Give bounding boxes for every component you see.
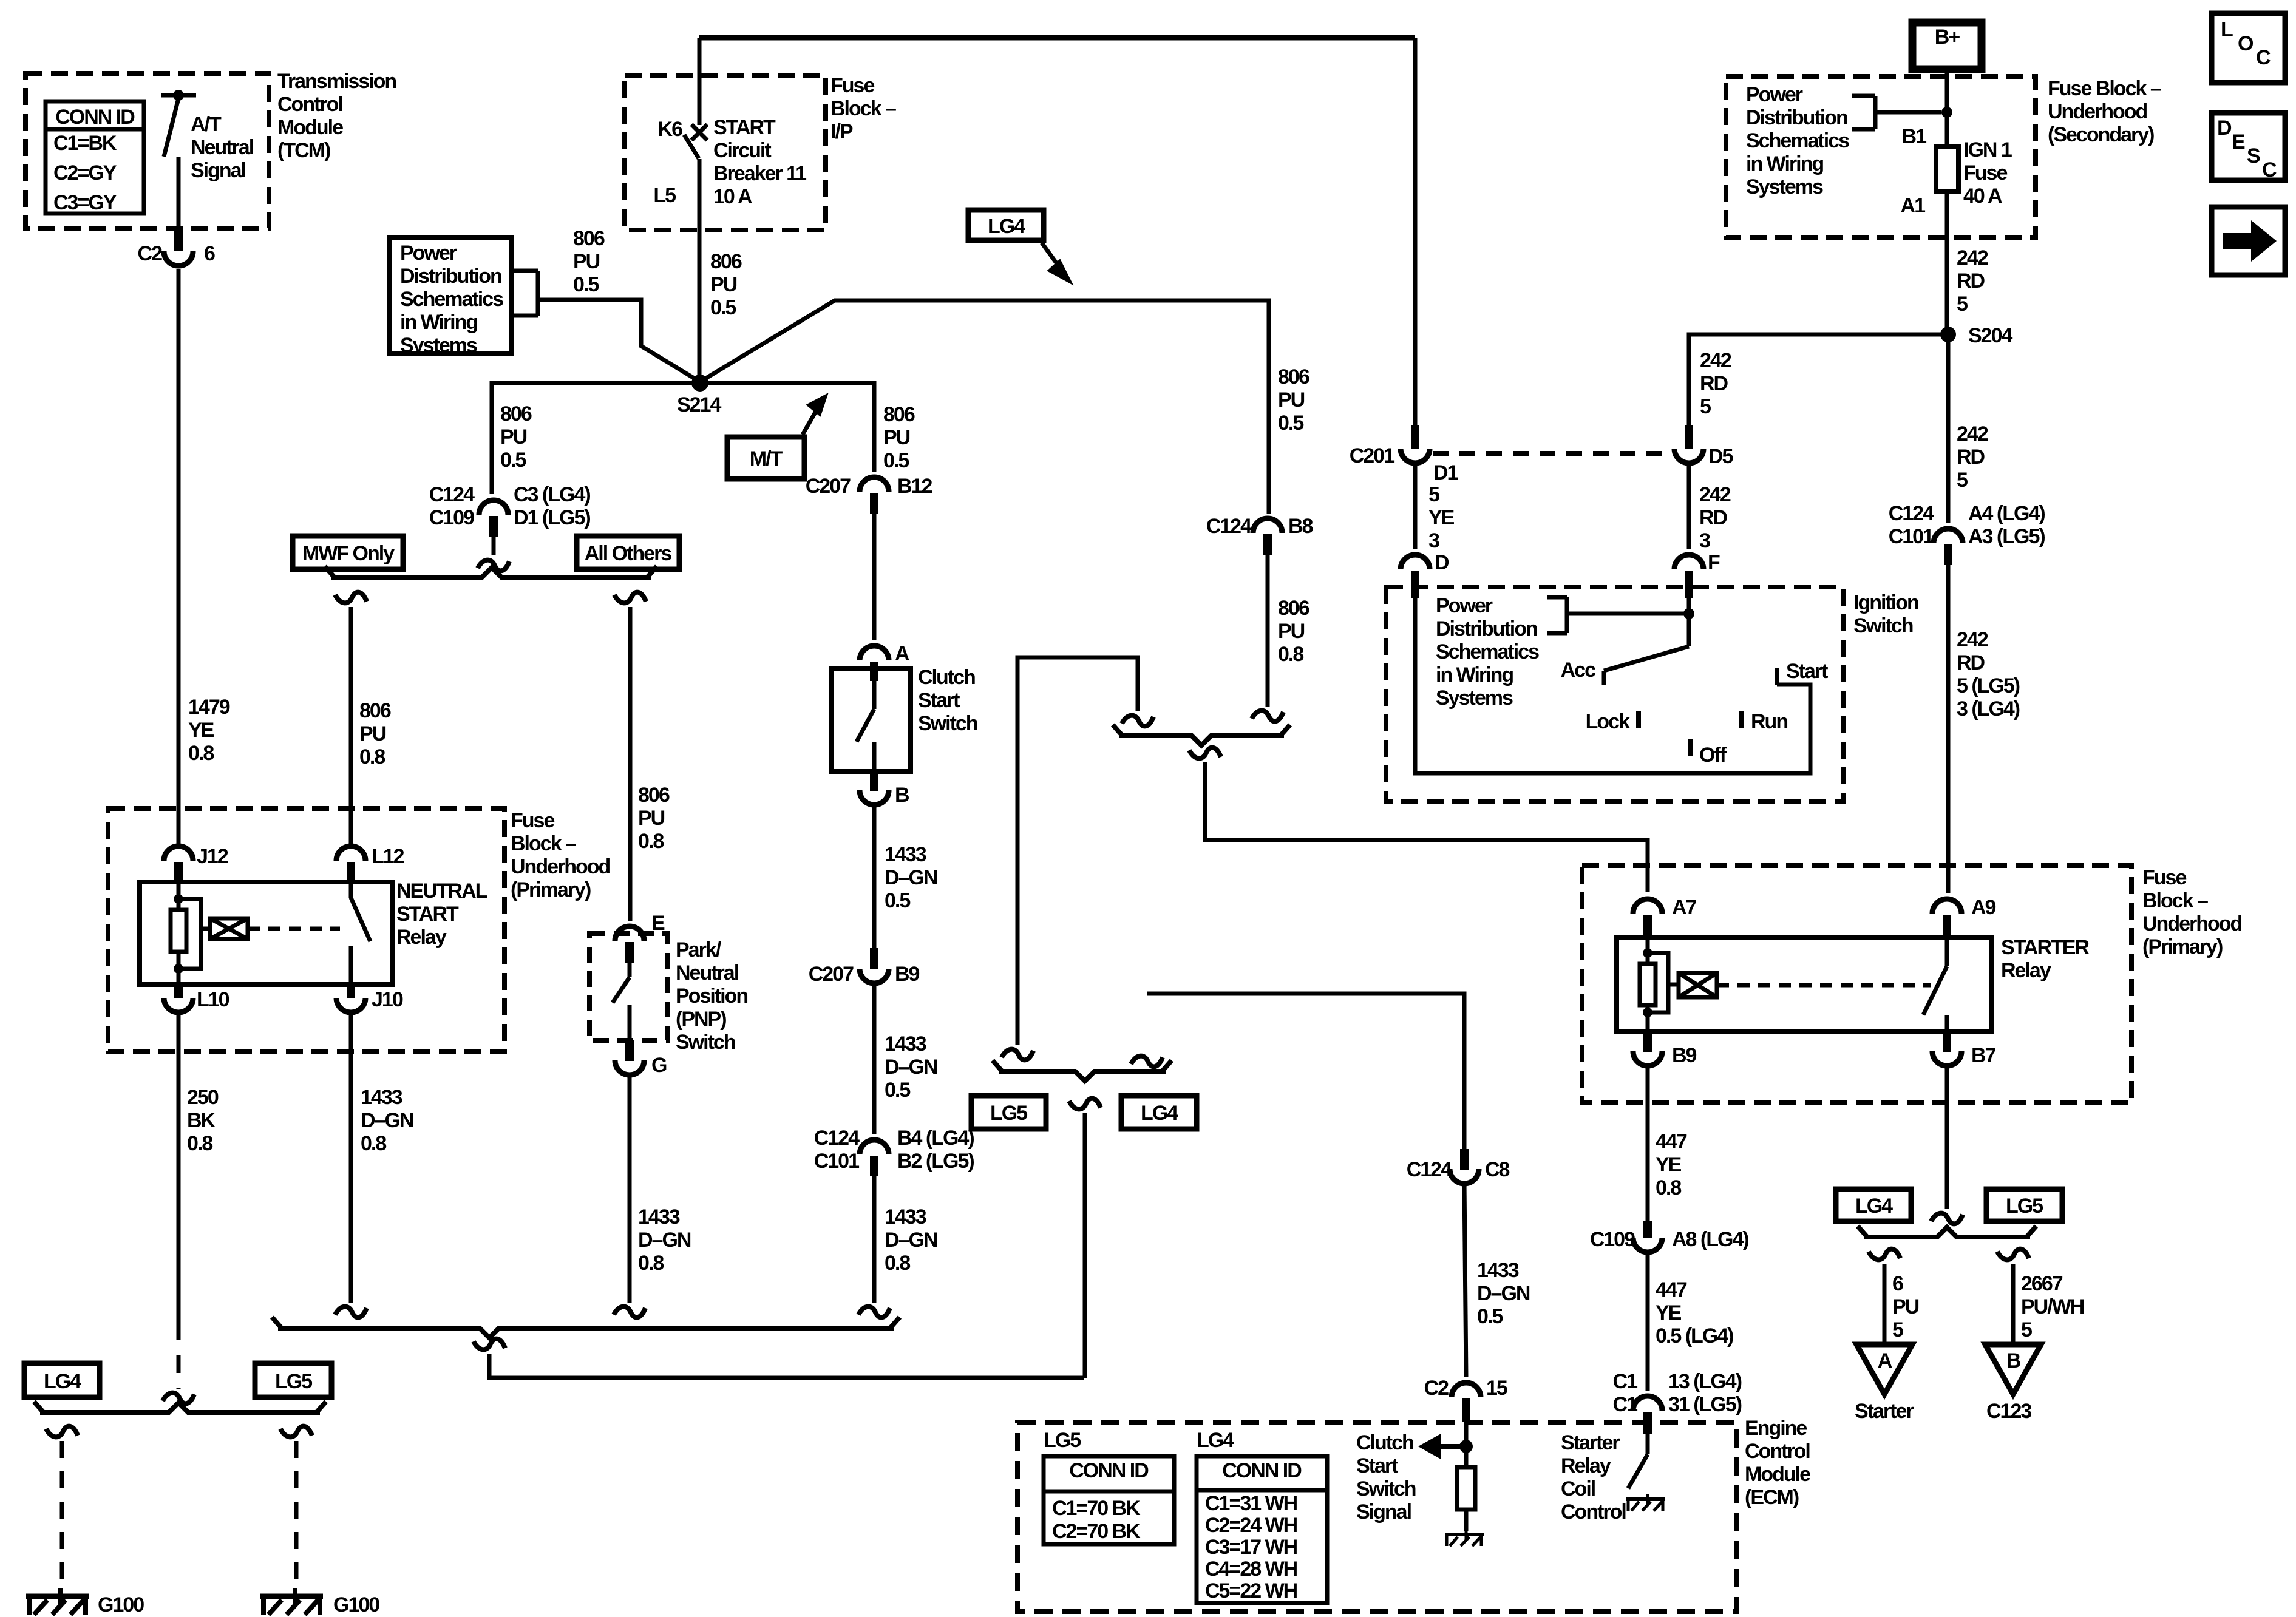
svg-text:BK: BK — [187, 1109, 216, 1132]
wire B7 down to starter feed split brace — [1945, 1065, 1949, 1209]
ground G100 (left) — [26, 1588, 89, 1615]
junction dot at B1 feed — [1941, 107, 1952, 118]
dashed actuator link (neutral start relay) — [248, 927, 340, 931]
connector C109 pin A8 (LG4) — [1633, 1221, 1662, 1252]
svg-text:C124: C124 — [1407, 1158, 1452, 1181]
resistor pull-down (clutch start switch signal) — [1457, 1446, 1475, 1531]
svg-text:PU/WH: PU/WH — [2021, 1295, 2084, 1318]
svg-text:(ECM): (ECM) — [1745, 1486, 1799, 1509]
svg-text:L10: L10 — [197, 988, 229, 1011]
option split brace LG4 / LG5 (starter feed) — [1858, 1226, 2036, 1237]
wire C207 B12 to clutch start switch A — [872, 514, 877, 640]
svg-text:Run: Run — [1751, 710, 1787, 733]
wire from B+ through IGN 1 fuse to S204 — [1945, 69, 1949, 334]
svg-text:CONN ID: CONN ID — [1222, 1459, 1302, 1482]
reference box Power Distribution Schematics in Wiring Systems (left) — [390, 237, 512, 354]
svg-text:Position: Position — [676, 985, 747, 1008]
svg-text:PU: PU — [1278, 620, 1305, 643]
svg-text:PU: PU — [573, 250, 600, 273]
svg-text:447: 447 — [1656, 1278, 1687, 1301]
svg-text:LG4: LG4 — [44, 1370, 81, 1393]
wire S214 to LG4 branch (diagonal and run to B8 drop) — [700, 300, 1269, 514]
svg-text:Fuse Block –: Fuse Block – — [2048, 77, 2161, 100]
wire 447 YE 0.5 from A8 to ECM C1 — [1646, 1252, 1650, 1391]
svg-text:A: A — [1878, 1349, 1892, 1372]
svg-text:L5: L5 — [653, 184, 676, 207]
svg-text:242: 242 — [1957, 628, 1988, 651]
svg-text:3: 3 — [1699, 529, 1710, 552]
svg-text:G: G — [651, 1054, 667, 1077]
connector A9 — [1932, 899, 1961, 937]
svg-text:Signal: Signal — [1356, 1500, 1411, 1524]
svg-text:LG4: LG4 — [988, 215, 1025, 238]
svg-text:Start: Start — [1786, 660, 1828, 683]
wire S214 left branch to C124/C109 drop — [492, 383, 700, 494]
svg-text:C201: C201 — [1350, 444, 1394, 467]
relay coil winding symbol (neutral start relay) — [178, 899, 248, 969]
wire 242 RD to starter relay A9 — [1946, 565, 1951, 893]
switch Clutch Start Switch — [832, 668, 911, 771]
svg-text:LG5: LG5 — [1044, 1429, 1081, 1452]
svg-text:0.8: 0.8 — [638, 1252, 664, 1275]
svg-text:2667: 2667 — [2021, 1272, 2063, 1295]
power feed B+ terminal box — [1912, 22, 1982, 69]
svg-text:C1: C1 — [1613, 1393, 1638, 1416]
connector A7 — [1633, 899, 1662, 937]
svg-text:D–GN: D–GN — [1477, 1282, 1530, 1305]
svg-text:D–GN: D–GN — [885, 1056, 937, 1079]
svg-text:Relay: Relay — [1561, 1454, 1611, 1477]
svg-text:Neutral: Neutral — [191, 136, 254, 159]
svg-text:806: 806 — [1278, 597, 1309, 620]
module box Fuse Block - Underhood (Primary) right, dashed outline — [1582, 866, 2131, 1103]
legend box next-page arrow — [2212, 207, 2285, 275]
svg-text:(TCM): (TCM) — [277, 139, 330, 162]
relay coil resistor (neutral start relay) — [171, 882, 186, 985]
svg-text:RD: RD — [1699, 506, 1728, 529]
label box LG5 (option brace) — [971, 1096, 1046, 1129]
label box LG5 (starter feed) — [1986, 1189, 2062, 1221]
connector B7 — [1932, 1031, 1961, 1066]
svg-text:0.8: 0.8 — [638, 830, 664, 853]
switch Starter Relay Coil Control driver — [1628, 1434, 1648, 1488]
wire D5 to ignition switch F — [1687, 463, 1691, 549]
svg-text:3 (LG4): 3 (LG4) — [1957, 697, 2020, 720]
svg-text:C1=70 BK: C1=70 BK — [1052, 1497, 1141, 1520]
ground G100 (right) — [260, 1588, 323, 1615]
svg-text:M/T: M/T — [750, 447, 783, 470]
table CONN ID (LG5) — [1044, 1456, 1174, 1544]
svg-text:I/P: I/P — [830, 120, 853, 143]
svg-text:B1: B1 — [1902, 125, 1927, 148]
module box Fuse Block - I/P, dashed outline — [625, 75, 826, 230]
svg-text:Underhood: Underhood — [511, 855, 610, 878]
svg-text:D–GN: D–GN — [361, 1109, 413, 1132]
svg-text:B9: B9 — [895, 963, 920, 986]
svg-text:A8 (LG4): A8 (LG4) — [1672, 1228, 1748, 1251]
svg-text:Control: Control — [277, 93, 342, 116]
wire from power distribution bracket to splice S214 — [538, 300, 700, 382]
svg-text:Schematics: Schematics — [400, 288, 503, 311]
svg-text:C207: C207 — [806, 475, 851, 498]
svg-text:B9: B9 — [1672, 1044, 1697, 1067]
svg-text:806: 806 — [638, 784, 670, 807]
svg-text:0.8: 0.8 — [1656, 1176, 1681, 1199]
svg-text:Module: Module — [1745, 1463, 1810, 1486]
svg-text:Schematics: Schematics — [1746, 129, 1849, 152]
connector C2 pin 15 (ECM) — [1452, 1383, 1481, 1422]
svg-text:Relay: Relay — [2001, 959, 2051, 982]
wire D1 to ignition switch D — [1413, 463, 1418, 549]
svg-text:C123: C123 — [1986, 1400, 2031, 1423]
svg-text:Breaker 11: Breaker 11 — [713, 162, 806, 185]
svg-text:B4 (LG4): B4 (LG4) — [897, 1127, 974, 1150]
position tick Run — [1739, 711, 1744, 728]
legend box DESC — [2212, 113, 2285, 181]
svg-text:Starter: Starter — [1855, 1400, 1914, 1423]
svg-text:5: 5 — [1957, 469, 1968, 492]
svg-text:LG4: LG4 — [1855, 1195, 1893, 1218]
connector A (clutch start switch) — [860, 646, 889, 681]
svg-text:13 (LG4): 13 (LG4) — [1668, 1370, 1742, 1393]
svg-text:D5: D5 — [1708, 445, 1733, 468]
legend box LOC — [2212, 13, 2285, 83]
svg-text:0.5 (LG4): 0.5 (LG4) — [1656, 1324, 1733, 1347]
svg-text:C109: C109 — [429, 506, 474, 529]
svg-text:Fuse: Fuse — [511, 809, 554, 832]
svg-text:Schematics: Schematics — [1436, 640, 1539, 663]
svg-text:C1=31 WH: C1=31 WH — [1205, 1492, 1297, 1515]
svg-text:Systems: Systems — [1746, 175, 1823, 198]
svg-text:C2=70 BK: C2=70 BK — [1052, 1520, 1141, 1543]
svg-text:806: 806 — [883, 403, 915, 426]
svg-text:NEUTRAL: NEUTRAL — [396, 880, 487, 903]
svg-text:0.8: 0.8 — [1278, 643, 1303, 666]
bracket from power distribution box — [512, 271, 538, 316]
svg-text:Power: Power — [400, 242, 457, 265]
svg-text:Distribution: Distribution — [400, 265, 501, 288]
relay STARTER Relay box — [1617, 937, 1991, 1031]
position contact Start with internal wire to D — [1415, 598, 1810, 773]
svg-text:Coil: Coil — [1561, 1477, 1595, 1500]
svg-text:A/T: A/T — [191, 113, 222, 136]
wire output of ground-side brace to option brace output — [474, 1339, 1084, 1378]
svg-text:Control: Control — [1561, 1500, 1626, 1524]
svg-text:A3 (LG5): A3 (LG5) — [1968, 525, 2045, 548]
svg-text:C2: C2 — [138, 242, 163, 265]
svg-text:PU: PU — [710, 273, 737, 296]
switch module Ignition Switch, dashed outline — [1386, 587, 1843, 801]
svg-text:(Primary): (Primary) — [2142, 935, 2223, 958]
connector D (ignition switch) — [1401, 555, 1430, 598]
svg-text:Systems: Systems — [400, 334, 477, 357]
svg-text:15: 15 — [1486, 1377, 1507, 1400]
connector B (clutch start switch) — [860, 771, 889, 805]
svg-text:1433: 1433 — [361, 1086, 402, 1109]
connector C124/C101 pins B4 (LG4) / B2 (LG5) — [860, 1140, 889, 1176]
svg-text:Neutral: Neutral — [676, 961, 739, 985]
circuit breaker 11 (START, 10A) K6/L5 — [684, 38, 707, 379]
svg-text:A7: A7 — [1672, 896, 1697, 919]
connector C124/C109 pins C3 (LG4) / D1 (LG5) — [479, 500, 508, 537]
svg-text:D: D — [1435, 551, 1449, 574]
svg-text:C124: C124 — [1206, 515, 1252, 538]
svg-text:C8: C8 — [1485, 1158, 1510, 1181]
connector G (PNP switch) — [615, 1040, 644, 1075]
splice S204 — [1940, 327, 1956, 342]
wire S214 right to M/T drop — [700, 383, 874, 472]
dashed connector line C201 to D5 — [1433, 451, 1669, 456]
svg-text:B2 (LG5): B2 (LG5) — [897, 1150, 974, 1173]
wire LG4 option branch over to C124 C8 — [1147, 994, 1464, 1149]
svg-text:0.8: 0.8 — [885, 1252, 910, 1275]
svg-text:C101: C101 — [814, 1150, 859, 1173]
wire 1433 D-GN 0.5 from B9 to C124/C101 — [872, 983, 877, 1134]
wire 2667 PU/WH 5 branch to C123 — [1997, 1249, 2029, 1343]
svg-text:6: 6 — [1892, 1272, 1903, 1295]
svg-text:Power: Power — [1746, 83, 1803, 106]
module box Fuse Block - Underhood (Secondary), dashed outline — [1726, 76, 2036, 237]
svg-text:B: B — [2006, 1349, 2021, 1372]
svg-text:Power: Power — [1436, 594, 1493, 617]
svg-text:250: 250 — [187, 1086, 219, 1109]
svg-text:Start: Start — [918, 689, 960, 712]
svg-text:0.5: 0.5 — [1278, 412, 1303, 435]
svg-text:806: 806 — [359, 699, 391, 722]
wire output of LG5/LG4 option brace down to ground-side rail — [1069, 1099, 1101, 1378]
svg-text:C3=17 WH: C3=17 WH — [1205, 1536, 1297, 1559]
svg-text:0.5: 0.5 — [885, 889, 910, 912]
svg-text:S204: S204 — [1968, 324, 2012, 347]
svg-text:806: 806 — [710, 250, 742, 273]
svg-text:START: START — [396, 903, 459, 926]
svg-text:in Wiring: in Wiring — [1436, 663, 1513, 686]
svg-text:PU: PU — [359, 722, 386, 745]
svg-text:K6: K6 — [658, 118, 683, 141]
connector J12 — [164, 846, 193, 883]
svg-text:PU: PU — [638, 807, 665, 830]
svg-text:C: C — [2256, 46, 2271, 69]
connector C201 pin D1 — [1401, 38, 1430, 463]
switch A/T Neutral Signal inside TCM — [161, 90, 196, 229]
svg-text:(Primary): (Primary) — [511, 878, 591, 901]
svg-text:C3 (LG4): C3 (LG4) — [514, 483, 590, 506]
svg-text:STARTER: STARTER — [2001, 936, 2089, 959]
svg-text:A1: A1 — [1901, 194, 1926, 217]
connector C2 pin 6 (TCM) — [164, 229, 193, 266]
svg-text:YE: YE — [1428, 506, 1455, 529]
svg-text:447: 447 — [1656, 1130, 1687, 1153]
svg-text:Clutch: Clutch — [1356, 1431, 1413, 1454]
svg-text:B+: B+ — [1935, 25, 1960, 49]
svg-text:PU: PU — [500, 425, 527, 449]
wire 6 PU 5 branch to Starter — [1869, 1249, 1900, 1343]
svg-text:1479: 1479 — [188, 696, 230, 719]
option split brace MWF Only / All Others — [325, 566, 657, 577]
svg-text:Clutch: Clutch — [918, 666, 975, 689]
table CONN ID (LG4) — [1197, 1456, 1327, 1603]
svg-text:Fuse: Fuse — [1963, 161, 2007, 185]
ignition switch blade toward Acc — [1604, 614, 1689, 685]
connector C124 pin B8 — [1253, 518, 1282, 555]
svg-text:C101: C101 — [1889, 525, 1934, 548]
svg-text:Block –: Block – — [830, 97, 896, 120]
svg-text:C5=22 WH: C5=22 WH — [1205, 1579, 1297, 1602]
svg-text:L: L — [2221, 18, 2233, 41]
svg-text:START: START — [713, 116, 776, 139]
off-page connector A (Starter) — [1856, 1344, 1912, 1394]
svg-text:806: 806 — [1278, 365, 1309, 388]
svg-text:PU: PU — [883, 426, 910, 449]
connector E (PNP switch) — [615, 926, 644, 963]
svg-text:D: D — [2217, 117, 2232, 140]
svg-text:0.8: 0.8 — [188, 742, 214, 765]
relay coil winding symbol (starter relay) — [1648, 953, 1717, 1012]
wire 1433 D-GN 0.8 from J10 down to ground-side brace — [349, 1012, 353, 1303]
wire output of upper merge brace to starter relay A7 — [1189, 748, 1648, 892]
svg-text:Block –: Block – — [2142, 889, 2208, 912]
svg-text:C1: C1 — [1613, 1370, 1638, 1393]
svg-text:D1 (LG5): D1 (LG5) — [514, 506, 590, 529]
svg-text:LG5: LG5 — [275, 1370, 312, 1393]
svg-text:PU: PU — [1892, 1295, 1919, 1318]
wire S204 left to D5 drop — [1689, 334, 1948, 425]
svg-text:C124: C124 — [1889, 502, 1934, 525]
svg-text:Control: Control — [1745, 1440, 1810, 1463]
svg-text:C207: C207 — [809, 963, 854, 986]
svg-text:Systems: Systems — [1436, 686, 1513, 710]
switch Park/Neutral Position (PNP), dashed outline — [589, 934, 667, 1040]
svg-text:PU: PU — [1278, 388, 1305, 412]
position tick Lock — [1636, 711, 1641, 728]
svg-text:MWF Only: MWF Only — [302, 542, 395, 565]
fuse IGN 1 40 A — [1936, 147, 1958, 192]
svg-text:5: 5 — [1892, 1318, 1903, 1341]
svg-text:D1: D1 — [1433, 461, 1458, 484]
svg-text:Underhood: Underhood — [2048, 100, 2147, 123]
svg-text:40 A: 40 A — [1963, 185, 2002, 208]
svg-text:YE: YE — [1656, 1153, 1682, 1176]
bracket from power distribution text to B1 node — [1852, 96, 1941, 129]
svg-text:3: 3 — [1428, 529, 1439, 552]
svg-text:0.5: 0.5 — [885, 1079, 910, 1102]
svg-text:Switch: Switch — [1356, 1477, 1416, 1500]
svg-text:RD: RD — [1957, 651, 1985, 674]
relay NEUTRAL START Relay box — [140, 882, 392, 985]
svg-text:C4=28 WH: C4=28 WH — [1205, 1558, 1297, 1581]
wire stub into option split brace — [492, 537, 496, 555]
svg-text:806: 806 — [573, 227, 605, 250]
svg-text:5: 5 — [2021, 1318, 2032, 1341]
svg-text:in Wiring: in Wiring — [1746, 152, 1823, 175]
label box All Others — [577, 536, 679, 569]
svg-text:CONN ID: CONN ID — [1069, 1459, 1149, 1482]
relay switch contacts (starter relay) — [1923, 937, 1947, 1031]
svg-text:RD: RD — [1957, 446, 1985, 469]
svg-text:B7: B7 — [1971, 1044, 1996, 1067]
svg-text:A: A — [895, 642, 909, 665]
svg-text:Distribution: Distribution — [1436, 617, 1537, 640]
svg-text:J10: J10 — [372, 988, 403, 1011]
svg-text:1433: 1433 — [885, 843, 926, 866]
off-page connector B (C123) — [1985, 1344, 2041, 1394]
svg-text:RD: RD — [1700, 372, 1728, 395]
wire MWF-only branch down to L12 — [335, 592, 367, 603]
svg-text:Circuit: Circuit — [713, 139, 771, 162]
svg-text:Lock: Lock — [1586, 710, 1630, 733]
svg-text:LG5: LG5 — [2006, 1195, 2043, 1218]
connector C207 pin B9 — [860, 948, 889, 983]
svg-text:1433: 1433 — [1477, 1259, 1519, 1282]
svg-text:All Others: All Others — [585, 542, 672, 565]
module box Engine Control Module (ECM), dashed outline — [1017, 1422, 1736, 1612]
connector C124 pin C8 — [1450, 1149, 1479, 1184]
svg-text:C3=GY: C3=GY — [53, 191, 117, 214]
svg-text:Signal: Signal — [191, 159, 246, 182]
wire 1433 D-GN 0.8 from B4/B2 down to ground-side brace — [872, 1176, 877, 1303]
connector L10 — [164, 985, 193, 1012]
svg-text:YE: YE — [1656, 1301, 1682, 1324]
wire 1433 D-GN 0.5 from B to C207 B9 — [872, 804, 877, 948]
svg-text:0.5: 0.5 — [1477, 1305, 1503, 1328]
wire top bus from circuit breaker to C201 drop — [699, 35, 1415, 41]
svg-text:(Secondary): (Secondary) — [2048, 123, 2154, 146]
label box LG4 (ground option) — [24, 1363, 100, 1397]
connector D5 — [1674, 425, 1703, 463]
svg-text:Module: Module — [277, 116, 343, 139]
svg-text:B: B — [895, 784, 909, 807]
connector L12 — [336, 846, 365, 883]
svg-text:242: 242 — [1700, 349, 1731, 372]
svg-text:RD: RD — [1957, 269, 1985, 293]
merge brace above starter-relay feed (M/T with LG4 branch) — [1113, 725, 1290, 745]
svg-text:C: C — [2262, 158, 2277, 181]
svg-text:in Wiring: in Wiring — [400, 311, 477, 334]
svg-text:O: O — [2238, 32, 2254, 55]
svg-text:5 (LG5): 5 (LG5) — [1957, 674, 2020, 697]
wire Z-route linking upper merge brace to LG5 option brace — [1017, 657, 1138, 1045]
label box LG5 (ground option) — [255, 1363, 331, 1397]
svg-text:1433: 1433 — [885, 1205, 926, 1229]
svg-text:Switch: Switch — [676, 1031, 735, 1054]
svg-text:J12: J12 — [197, 845, 228, 868]
svg-text:CONN ID: CONN ID — [55, 106, 135, 129]
svg-text:31 (LG5): 31 (LG5) — [1668, 1393, 1742, 1416]
svg-text:C2=GY: C2=GY — [53, 161, 117, 185]
svg-text:Ignition: Ignition — [1853, 591, 1918, 614]
connector J10 — [336, 985, 365, 1012]
svg-text:Starter: Starter — [1561, 1431, 1620, 1454]
svg-text:5: 5 — [1957, 293, 1968, 316]
svg-text:D–GN: D–GN — [885, 1229, 937, 1252]
ground (clutch start switch signal) — [1445, 1529, 1484, 1546]
ignition switch rotor feed and node — [1683, 598, 1694, 619]
svg-text:806: 806 — [500, 402, 532, 425]
svg-text:Engine: Engine — [1745, 1417, 1807, 1440]
svg-text:C124: C124 — [429, 483, 475, 506]
svg-text:LG5: LG5 — [990, 1102, 1027, 1125]
svg-text:E: E — [2232, 131, 2245, 154]
svg-text:A9: A9 — [1971, 896, 1996, 919]
svg-text:0.8: 0.8 — [361, 1132, 386, 1155]
svg-text:(PNP): (PNP) — [676, 1008, 726, 1031]
connector B9 — [1633, 1031, 1662, 1066]
svg-text:C1=BK: C1=BK — [53, 132, 117, 155]
svg-text:Block –: Block – — [511, 832, 576, 855]
label box LG4 (option brace) — [1121, 1096, 1197, 1129]
svg-text:C109: C109 — [1590, 1228, 1635, 1251]
svg-text:0.8: 0.8 — [187, 1132, 212, 1155]
